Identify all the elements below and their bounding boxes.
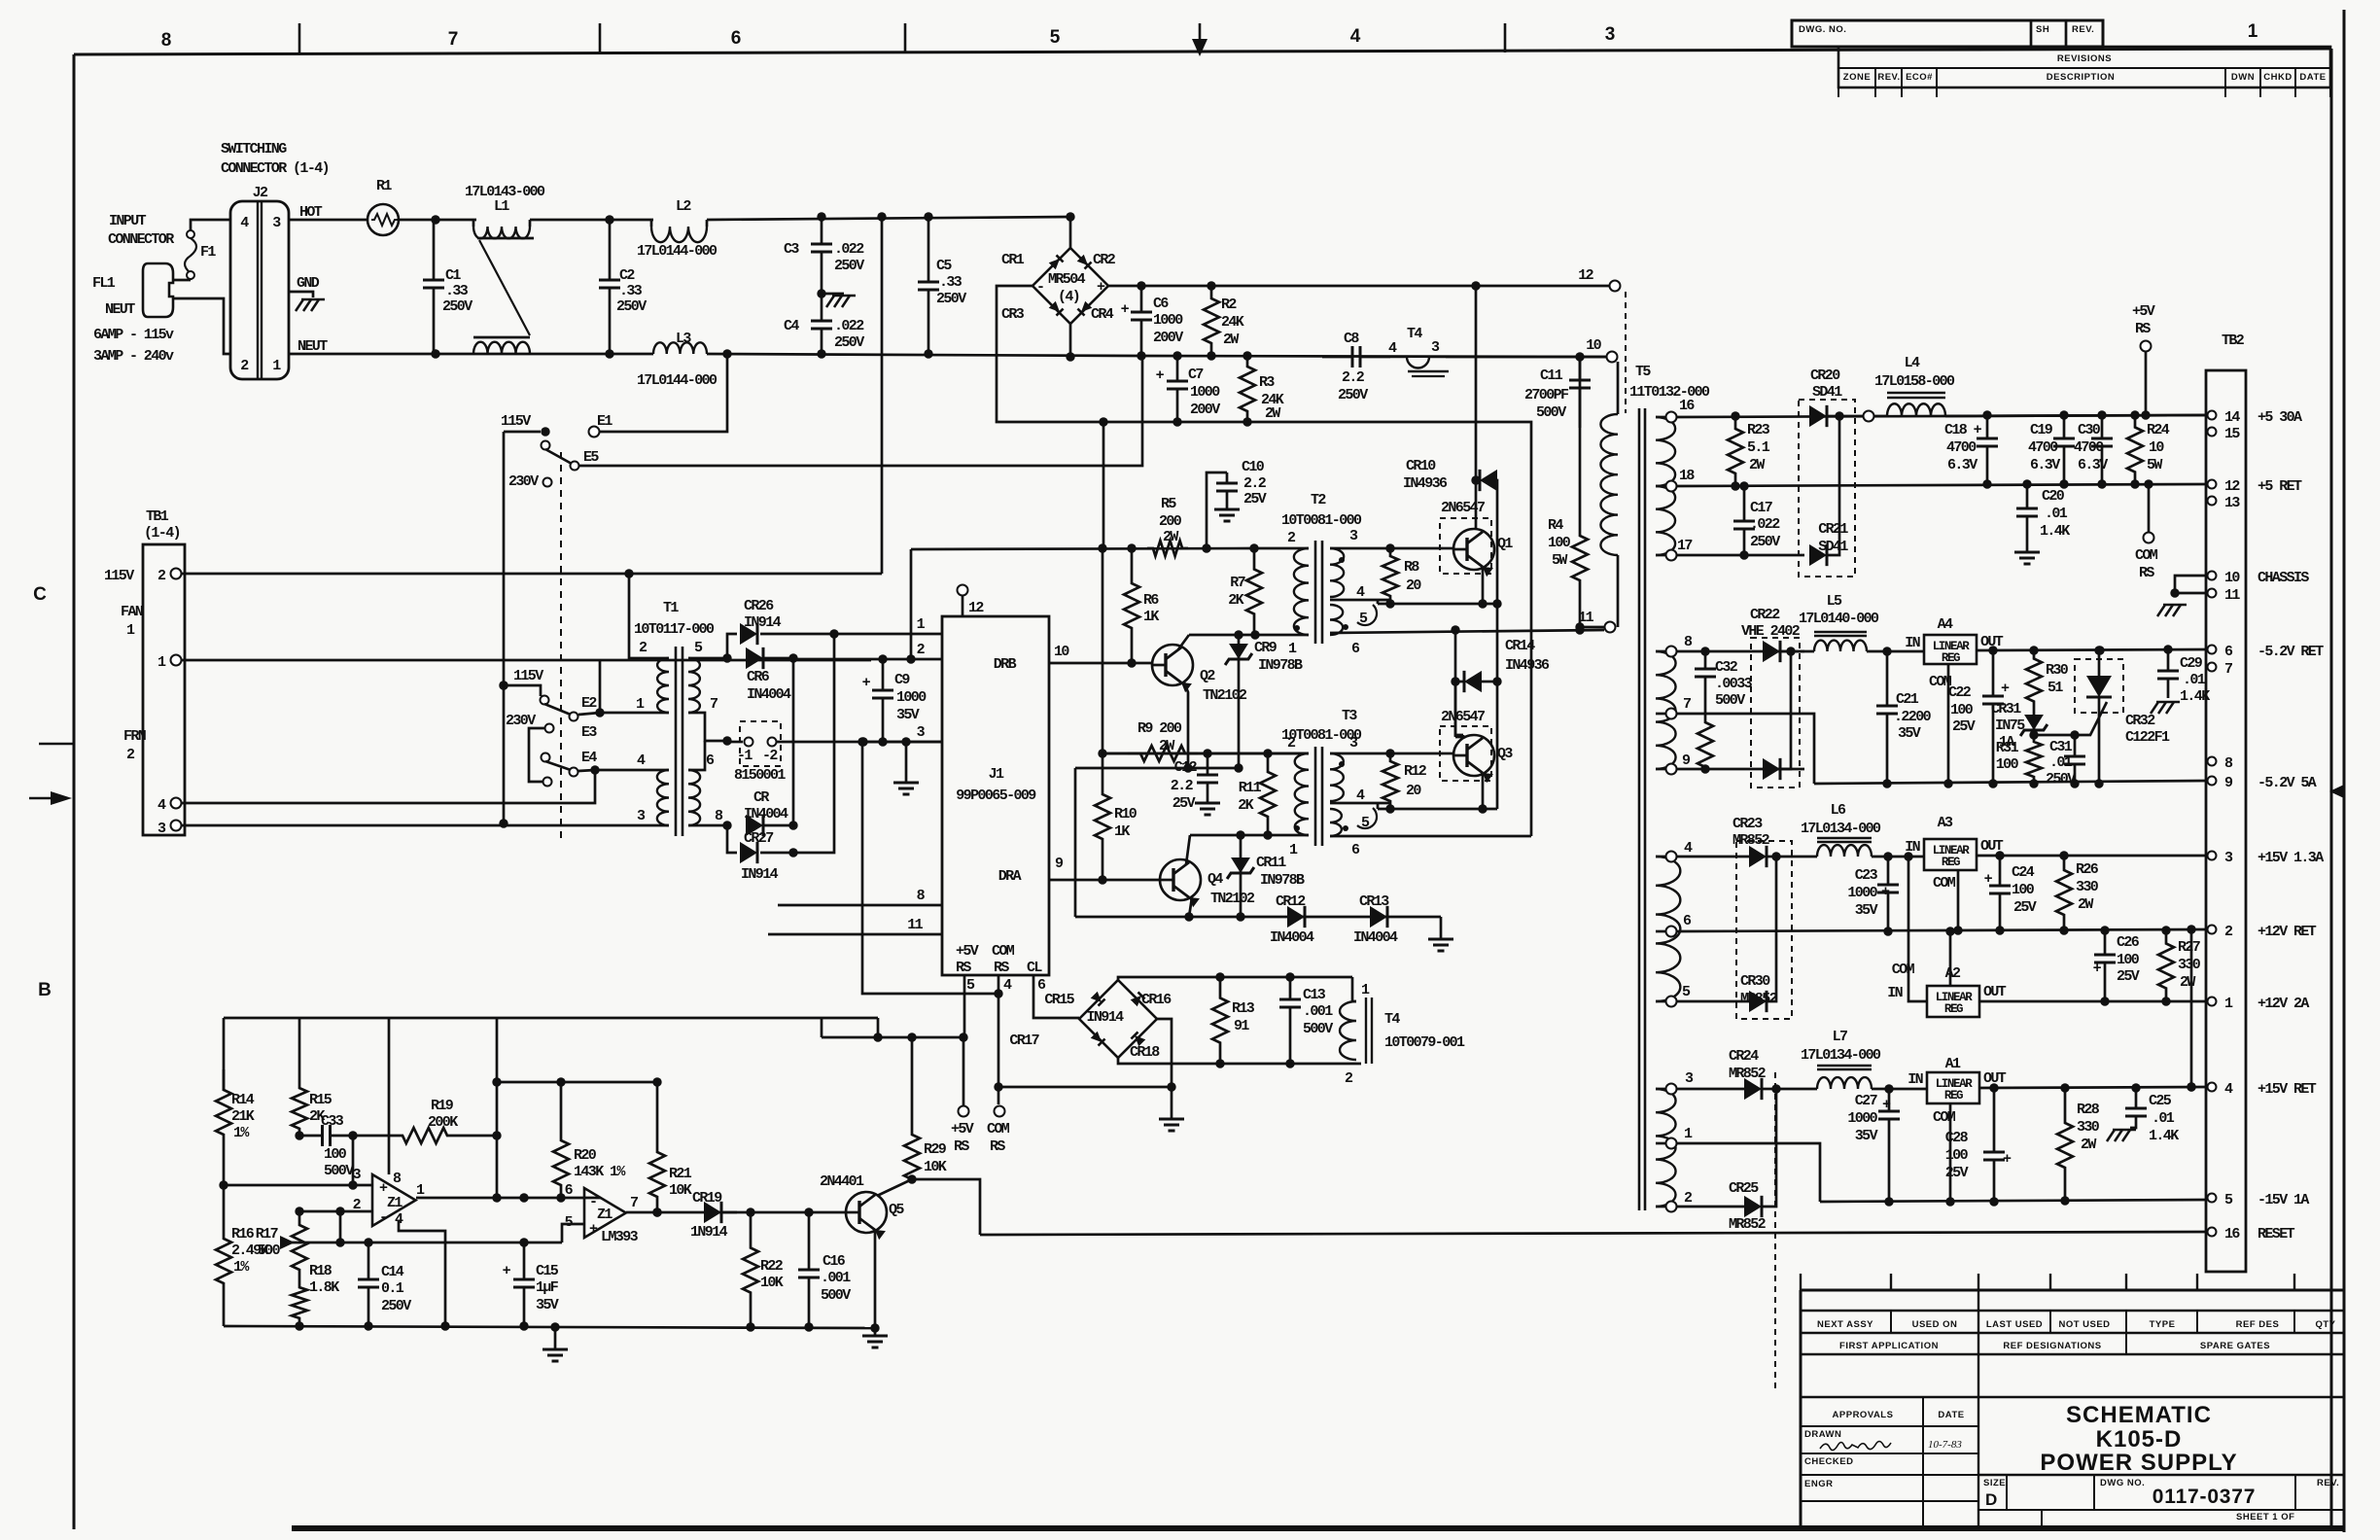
wire J1 pin4 COM — [997, 975, 1000, 1104]
capacitor C18 — [1986, 415, 1989, 438]
svg-text:(4): (4) — [1058, 289, 1079, 305]
capacitor C22 — [1992, 650, 1995, 696]
svg-text:1.4K: 1.4K — [2040, 523, 2070, 540]
diode CR27 — [727, 825, 737, 853]
wire TB1 pin3 — [181, 824, 669, 827]
svg-text:0.1: 0.1 — [381, 1280, 404, 1297]
svg-text:330: 330 — [2178, 957, 2201, 973]
svg-text:R7: R7 — [1230, 575, 1244, 591]
-5.2V RET rail — [1977, 649, 2207, 650]
svg-text:10: 10 — [1054, 644, 1069, 660]
wire Q1 collector CR10 column — [1475, 286, 1478, 529]
svg-text:E5: E5 — [583, 449, 599, 466]
svg-text:11T0132-000: 11T0132-000 — [1629, 384, 1710, 401]
svg-text:C12: C12 — [1174, 759, 1198, 776]
svg-text:TB1: TB1 — [146, 508, 169, 525]
svg-text:T3: T3 — [1342, 708, 1357, 724]
wire mid rail — [1141, 356, 1606, 357]
ground Q5 — [874, 1328, 877, 1336]
TB2 pin 9 — [2208, 777, 2217, 786]
svg-text:35V: 35V — [896, 707, 920, 723]
svg-text:REG: REG — [1942, 856, 1960, 869]
svg-text:.01: .01 — [2049, 754, 2073, 771]
svg-text:2.2: 2.2 — [1243, 475, 1267, 492]
svg-text:CR23: CR23 — [1732, 816, 1763, 832]
svg-text:T1: T1 — [663, 600, 679, 616]
svg-text:INPUT: INPUT — [109, 213, 147, 229]
wire Q4 collector — [1186, 835, 1190, 864]
vertical 115V feed — [503, 432, 506, 823]
svg-text:5: 5 — [1050, 27, 1061, 48]
svg-text:CR10: CR10 — [1406, 458, 1436, 474]
svg-text:IN914: IN914 — [741, 866, 779, 883]
svg-text:MR852: MR852 — [1732, 832, 1770, 849]
svg-text:2K: 2K — [1228, 592, 1243, 609]
svg-text:E2: E2 — [581, 695, 597, 712]
svg-text:C24: C24 — [2012, 864, 2035, 881]
svg-text:+5V: +5V — [2132, 303, 2155, 320]
resistor R2 — [1204, 286, 1219, 356]
svg-text:RS: RS — [990, 1138, 1005, 1155]
svg-text:115V: 115V — [513, 668, 543, 684]
svg-text:1%: 1% — [233, 1259, 250, 1276]
svg-text:ENGR: ENGR — [1804, 1479, 1833, 1489]
svg-text:C19: C19 — [2030, 422, 2053, 438]
+15V RET rail — [1979, 1087, 2207, 1088]
svg-text:-: - — [1036, 279, 1043, 296]
capacitor C4 — [821, 294, 823, 321]
svg-text:2W: 2W — [2078, 896, 2093, 913]
svg-text:+15V 1.3A: +15V 1.3A — [2257, 850, 2324, 866]
svg-text:10: 10 — [2149, 439, 2164, 456]
resistor R24 — [2127, 415, 2143, 484]
capacitor C28 — [1993, 1088, 1996, 1152]
svg-text:.01: .01 — [2045, 506, 2068, 522]
svg-text:CR31: CR31 — [1991, 701, 2021, 717]
svg-text:C21: C21 — [1896, 691, 1919, 708]
svg-text:RS: RS — [994, 960, 1009, 976]
svg-text:17L0140-000: 17L0140-000 — [1799, 611, 1879, 627]
svg-text:R18: R18 — [309, 1263, 332, 1279]
+12V RET rail — [1676, 929, 2207, 931]
wire L1 to C2 L2 — [530, 219, 653, 222]
capacitor C33 — [299, 1135, 323, 1137]
T2 pin4 tap — [1330, 599, 1390, 602]
svg-text:18: 18 — [1679, 468, 1695, 484]
wire E5 row — [579, 358, 1142, 466]
capacitor C17 — [1743, 486, 1746, 521]
svg-text:C29: C29 — [2180, 655, 2203, 672]
svg-text:R19: R19 — [431, 1098, 454, 1114]
svg-text:R11: R11 — [1239, 780, 1262, 796]
svg-text:10-7-83: 10-7-83 — [1928, 1439, 1962, 1451]
svg-text:C6: C6 — [1153, 296, 1169, 312]
svg-text:4700: 4700 — [1946, 439, 1977, 456]
svg-text:VHE 2402: VHE 2402 — [1741, 623, 1801, 640]
wire Q1 base — [1443, 547, 1453, 550]
wire emitter column to CR12 row — [1074, 768, 1077, 917]
svg-text:7: 7 — [710, 696, 717, 713]
svg-text:COM: COM — [1933, 875, 1956, 892]
Q2 emitter row — [1075, 767, 1239, 770]
svg-text:.33: .33 — [939, 274, 962, 291]
svg-text:GND: GND — [297, 275, 320, 292]
svg-text:IN4936: IN4936 — [1403, 475, 1448, 492]
svg-text:2W: 2W — [2081, 1137, 2096, 1153]
zener CR31 — [2033, 710, 2036, 735]
svg-text:11: 11 — [2224, 587, 2240, 604]
svg-text:6.3V: 6.3V — [1947, 457, 1977, 473]
capacitor C21 — [1886, 651, 1889, 706]
svg-text:FAN: FAN — [121, 604, 144, 620]
right border arrow — [2329, 785, 2344, 798]
TB2 pin 7 — [2208, 663, 2217, 672]
svg-text:CR22: CR22 — [1750, 607, 1780, 623]
svg-text:RS: RS — [956, 960, 971, 976]
T5 secondary winding 2 — [1656, 651, 1676, 769]
svg-text:200V: 200V — [1153, 330, 1183, 346]
capacitor C19 — [2063, 415, 2066, 438]
TB2 pin 5 — [2208, 1194, 2217, 1203]
svg-text:24K: 24K — [1221, 314, 1244, 331]
svg-text:NOT USED: NOT USED — [2058, 1319, 2110, 1330]
svg-text:12: 12 — [968, 600, 984, 616]
svg-text:3AMP - 240v: 3AMP - 240v — [93, 348, 174, 365]
dashed box CR20 CR21 — [1799, 400, 1855, 577]
supply rail bottom-left block — [224, 1017, 878, 1020]
svg-text:C18 +: C18 + — [1944, 422, 1982, 438]
svg-text:330: 330 — [2077, 1119, 2100, 1136]
svg-text:T2: T2 — [1311, 492, 1326, 508]
svg-text:CR: CR — [753, 789, 769, 806]
bridge CR15-CR18 — [1079, 980, 1157, 1058]
svg-text:POWER SUPPLY: POWER SUPPLY — [2040, 1450, 2237, 1476]
svg-text:500V: 500V — [1303, 1021, 1333, 1037]
wire Q2 collector — [1178, 635, 1189, 649]
svg-text:R24: R24 — [2147, 422, 2170, 438]
svg-text:2W: 2W — [1265, 405, 1280, 422]
svg-text:CR20: CR20 — [1810, 367, 1840, 384]
svg-text:D: D — [1985, 1490, 1997, 1509]
svg-text:15: 15 — [2224, 426, 2240, 442]
transistor Q1 — [1440, 518, 1491, 574]
svg-text:R30: R30 — [2046, 662, 2069, 679]
wire pin3 row — [224, 1184, 372, 1187]
svg-text:-2: -2 — [762, 748, 778, 764]
svg-text:250V: 250V — [834, 334, 864, 351]
svg-text:CR18: CR18 — [1130, 1044, 1160, 1061]
+5 rail pin16 — [1676, 415, 2207, 417]
svg-text:SCHEMATIC: SCHEMATIC — [2066, 1402, 2212, 1428]
+5 output rail after L4 — [1945, 415, 2207, 416]
svg-text:10K: 10K — [924, 1159, 947, 1175]
svg-text:+15V RET: +15V RET — [2257, 1081, 2317, 1098]
Z1a pin4 stub — [399, 1220, 445, 1326]
zone ticks top — [298, 23, 301, 52]
resistor R20 — [553, 1082, 569, 1198]
svg-text:SPARE GATES: SPARE GATES — [2200, 1341, 2270, 1351]
TB2 pin 3 — [2208, 852, 2217, 860]
wire L3 to mid rail — [707, 354, 1141, 356]
svg-text:R27: R27 — [2178, 939, 2200, 956]
Z1a output row — [416, 1197, 601, 1200]
svg-text:10T0079-001: 10T0079-001 — [1384, 1034, 1465, 1051]
capacitor C15 — [523, 1242, 526, 1279]
svg-text:+12V RET: +12V RET — [2257, 924, 2317, 940]
svg-text:CR6: CR6 — [747, 669, 770, 685]
bridge top row — [1118, 977, 1352, 980]
main drive rail — [910, 549, 913, 659]
wire COM RS row to ground — [998, 1086, 1172, 1089]
capacitor C29 — [2167, 649, 2170, 671]
svg-text:IN: IN — [1887, 985, 1903, 1001]
wiper row — [305, 1242, 562, 1244]
svg-text:C: C — [33, 584, 47, 605]
svg-text:TN2102: TN2102 — [1210, 891, 1255, 907]
capacitor C26 — [2104, 930, 2107, 955]
svg-text:13: 13 — [2224, 495, 2240, 511]
svg-text:C14: C14 — [381, 1264, 404, 1280]
svg-text:0117-0377: 0117-0377 — [2152, 1486, 2256, 1508]
svg-text:J1: J1 — [989, 766, 1004, 783]
svg-text:.001: .001 — [821, 1270, 851, 1286]
+15V rail — [1977, 855, 2207, 857]
svg-text:LAST USED: LAST USED — [1986, 1319, 2043, 1330]
svg-text:1000: 1000 — [896, 689, 927, 706]
svg-text:.022: .022 — [834, 241, 864, 258]
svg-text:R13: R13 — [1232, 1000, 1255, 1017]
T3 pin5 stub — [1357, 808, 1377, 828]
+12V 2A rail — [1979, 1000, 2207, 1003]
svg-text:35V: 35V — [1855, 902, 1878, 919]
svg-text:35V: 35V — [536, 1297, 559, 1313]
svg-text:20: 20 — [1406, 783, 1421, 799]
pin9 row — [1676, 768, 1804, 771]
svg-text:L5: L5 — [1827, 593, 1842, 610]
svg-text:IN4004: IN4004 — [1353, 929, 1398, 946]
svg-text:4700: 4700 — [2028, 439, 2058, 456]
svg-text:IN978B: IN978B — [1258, 657, 1303, 674]
A2 COM stub — [1949, 931, 1952, 986]
svg-text:R6: R6 — [1143, 592, 1159, 609]
svg-text:TYPE: TYPE — [2150, 1319, 2176, 1330]
svg-text:CR21: CR21 — [1818, 521, 1848, 538]
svg-text:Q4: Q4 — [1207, 871, 1223, 888]
svg-text:C3: C3 — [784, 241, 799, 258]
svg-text:4700: 4700 — [2074, 439, 2104, 456]
svg-text:25V: 25V — [1945, 1165, 1969, 1181]
svg-text:FIRST APPLICATION: FIRST APPLICATION — [1839, 1341, 1939, 1351]
svg-text:C28: C28 — [1945, 1130, 1969, 1146]
T2 polarity dots — [1294, 625, 1300, 631]
svg-text:RS: RS — [2135, 321, 2151, 337]
A1 COM stub — [1949, 1103, 1952, 1202]
module J1 — [942, 616, 1049, 975]
svg-text:.33: .33 — [619, 283, 643, 299]
capacitor C25 — [2135, 1088, 2138, 1108]
svg-text:Q5: Q5 — [889, 1202, 904, 1218]
bridge plus rail — [1108, 285, 1615, 288]
ground T4 — [1408, 370, 1449, 373]
svg-text:17L0134-000: 17L0134-000 — [1801, 821, 1881, 837]
svg-text:R3: R3 — [1259, 374, 1275, 391]
svg-text:100: 100 — [2117, 952, 2140, 968]
Q5 collector to R29 — [877, 1179, 980, 1235]
svg-text:R12: R12 — [1404, 763, 1427, 780]
svg-text:REV.: REV. — [1877, 72, 1900, 83]
capacitor C31 — [2034, 734, 2075, 737]
svg-text:MR504: MR504 — [1048, 271, 1086, 288]
svg-text:FL1: FL1 — [92, 275, 116, 292]
A4 COM stub — [1947, 664, 1950, 784]
svg-text:C26: C26 — [2117, 934, 2140, 951]
bottom rail comparator — [224, 1326, 875, 1328]
svg-text:CONNECTOR: CONNECTOR — [108, 231, 174, 248]
svg-text:100: 100 — [1548, 535, 1571, 551]
svg-text:+12V 2A: +12V 2A — [2257, 996, 2309, 1012]
TB2 pin 6 — [2208, 646, 2217, 654]
svg-text:R22: R22 — [760, 1258, 784, 1275]
svg-text:MR852: MR852 — [1729, 1216, 1767, 1233]
svg-text:R15: R15 — [309, 1092, 332, 1108]
svg-text:200V: 200V — [1190, 402, 1220, 418]
COM RS testpoint right — [2144, 533, 2154, 543]
svg-text:DATE: DATE — [2299, 72, 2326, 83]
svg-text:230V: 230V — [508, 473, 539, 490]
wire FL1 to fuse — [173, 279, 191, 282]
wire CR22 to L5 — [1791, 650, 1814, 653]
svg-text:2W: 2W — [1749, 457, 1765, 473]
svg-text:Q2: Q2 — [1200, 668, 1215, 684]
svg-text:IN: IN — [1905, 635, 1920, 651]
svg-text:5.1: 5.1 — [1747, 439, 1770, 456]
svg-text:35V: 35V — [1898, 725, 1921, 742]
svg-text:C1: C1 — [445, 267, 461, 284]
T5 primary winding — [1617, 362, 1620, 414]
resistor R12 — [1382, 753, 1398, 809]
wire CR6 node to J1 pin2 — [793, 658, 942, 661]
wire FL1 neutral to J2 pin2 — [173, 298, 230, 354]
svg-text:CR4: CR4 — [1091, 306, 1114, 323]
wire T1 pin5 node — [688, 657, 727, 660]
svg-text:TB2: TB2 — [2222, 332, 2245, 349]
dashed line CR24 CR25 — [1774, 1072, 1776, 1388]
T3 pin6 row — [1330, 835, 1531, 838]
svg-text:500V: 500V — [1536, 404, 1566, 421]
RESET wire — [980, 1232, 2207, 1235]
svg-text:REG: REG — [1944, 1002, 1963, 1016]
svg-text:143K 1%: 143K 1% — [574, 1164, 626, 1180]
svg-text:2N6547: 2N6547 — [1441, 709, 1485, 725]
capacitor C24 — [1999, 856, 2002, 886]
svg-text:CHKD: CHKD — [2263, 72, 2292, 83]
svg-text:21K: 21K — [231, 1108, 255, 1125]
svg-text:R1: R1 — [376, 178, 392, 194]
svg-text:DRAWN: DRAWN — [1804, 1429, 1841, 1440]
wire T4 to T5 pin10 — [1446, 356, 1606, 359]
dashed box CR23 CR30 — [1736, 841, 1792, 1019]
capacitor C2 — [609, 220, 612, 280]
svg-text:CR17: CR17 — [1009, 1032, 1038, 1049]
wire CR10 to emitter column — [1494, 480, 1497, 809]
wire TB1 pin4 to E4 — [181, 770, 595, 803]
svg-text:7: 7 — [1683, 696, 1691, 713]
resistor R11 — [1260, 753, 1276, 835]
svg-text:A3: A3 — [1938, 815, 1953, 831]
svg-text:-5.2V 5A: -5.2V 5A — [2257, 775, 2317, 791]
resistor R14 — [216, 1069, 231, 1185]
svg-text:R31: R31 — [1996, 740, 2019, 756]
wire J1 pin3 to pin4 row — [862, 742, 998, 994]
svg-text:NEUT: NEUT — [105, 301, 135, 318]
wire bridge minus loop — [997, 286, 1531, 836]
capacitor C7 — [1176, 356, 1179, 381]
TB2 pin 2 — [2208, 926, 2217, 934]
svg-text:+5V: +5V — [951, 1121, 974, 1137]
pin3 row — [1676, 1088, 1745, 1091]
svg-text:CHASSIS: CHASSIS — [2257, 570, 2309, 586]
svg-text:Z1: Z1 — [597, 1207, 612, 1223]
svg-text:DWN: DWN — [2231, 72, 2255, 83]
svg-text:1µF: 1µF — [536, 1279, 559, 1296]
T5 secondary winding 3 — [1656, 857, 1680, 1001]
flow arrow top — [1192, 39, 1207, 56]
svg-text:ECO#: ECO# — [1906, 72, 1933, 83]
wire CR27 to J1 pin1 column — [760, 634, 834, 853]
capacitor C27 — [1888, 1089, 1891, 1111]
TB2 pin 16 — [2208, 1228, 2217, 1237]
resistor R15 — [298, 1018, 301, 1079]
TB2 pin 1 — [2208, 997, 2217, 1006]
svg-text:L4: L4 — [1905, 355, 1920, 371]
diode CR22 lower — [1763, 758, 1780, 780]
svg-text:2700PF: 2700PF — [1524, 387, 1569, 403]
svg-text:CL: CL — [1027, 960, 1042, 976]
svg-text:L2: L2 — [676, 198, 691, 215]
svg-text:REF DESIGNATIONS: REF DESIGNATIONS — [2003, 1341, 2101, 1351]
Z1b pin5 route — [562, 1224, 584, 1242]
svg-text:L6: L6 — [1831, 802, 1846, 819]
svg-text:COM: COM — [987, 1121, 1010, 1137]
svg-text:C30: C30 — [2078, 422, 2101, 438]
svg-text:R20: R20 — [574, 1147, 597, 1164]
svg-text:IN: IN — [1907, 1071, 1923, 1088]
T5 core — [1638, 408, 1641, 1210]
capacitor C5 — [927, 217, 930, 282]
T3 polarity dots — [1294, 825, 1300, 831]
dwg-no strip — [1792, 20, 2103, 47]
svg-text:99P0065-009: 99P0065-009 — [956, 787, 1036, 804]
svg-text:5W: 5W — [1552, 552, 1567, 569]
svg-text:-15V 1A: -15V 1A — [2257, 1192, 2309, 1208]
svg-text:C15: C15 — [536, 1263, 559, 1279]
svg-text:Q1: Q1 — [1497, 536, 1513, 552]
svg-text:10K: 10K — [760, 1275, 784, 1291]
svg-text:CR15: CR15 — [1044, 992, 1074, 1008]
fuse F1 — [190, 276, 192, 280]
svg-text:CR30: CR30 — [1740, 973, 1770, 990]
J1 pin 12 — [962, 595, 964, 616]
TB2 pin 4 — [2208, 1083, 2217, 1092]
svg-text:17: 17 — [1677, 538, 1692, 554]
COM RS testpoint — [995, 1106, 1005, 1117]
svg-text:115V: 115V — [501, 413, 531, 430]
wire NEUT to E1 row — [600, 354, 727, 432]
svg-text:12: 12 — [2224, 478, 2240, 495]
resistor R27 — [2158, 930, 2174, 1001]
svg-text:3: 3 — [1605, 24, 1616, 45]
svg-text:10T0117-000: 10T0117-000 — [634, 621, 715, 638]
